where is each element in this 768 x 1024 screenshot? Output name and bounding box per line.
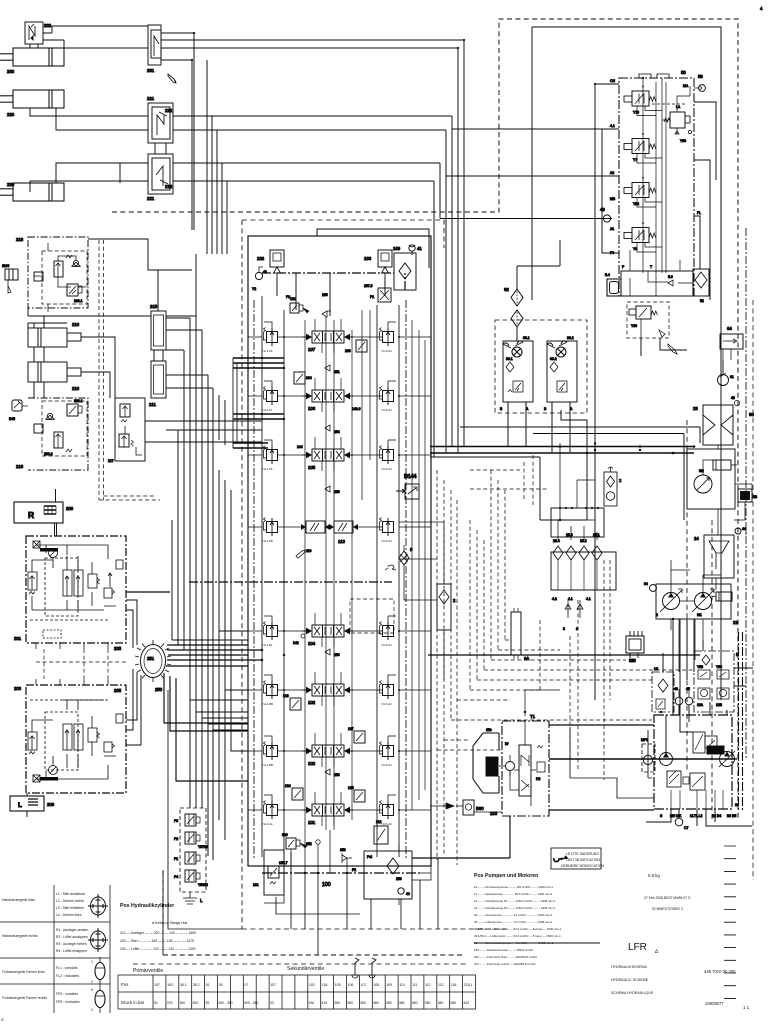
svg-text:380: 380 (360, 1001, 366, 1005)
svg-text:15.1: 15.1 (593, 533, 600, 537)
wire console R down (55, 489, 57, 536)
pump 2 (656, 589, 682, 617)
svg-text:43: 43 (731, 396, 735, 400)
svg-text:YH-1-BB: YH-1-BB (262, 763, 273, 767)
sensor B80 (456, 800, 502, 815)
svg-text:101: 101 (308, 820, 316, 825)
filter 62 lower (511, 310, 523, 327)
solenoid Y59 (716, 665, 729, 679)
relief valve right r631 (380, 622, 394, 641)
spool valve 102 (248, 672, 431, 706)
pilot sq 218 upper (67, 284, 82, 296)
svg-text:113: 113 (438, 983, 444, 987)
box 218.1 upper dashed (42, 251, 87, 304)
svg-text:380: 380 (425, 1001, 431, 1005)
wire 231 outputs right (161, 33, 464, 60)
svg-text:218: 218 (16, 464, 24, 469)
svg-text:150: 150 (334, 653, 340, 657)
svg-text:CH: CH (610, 79, 615, 83)
mid-block extra components (233, 340, 419, 844)
gauge port 48 (255, 267, 266, 280)
tank box (551, 480, 604, 537)
valve 215 (150, 304, 166, 350)
svg-text:B2 B4: B2 B4 (712, 814, 721, 818)
svg-text:4.2: 4.2 (552, 597, 557, 601)
svg-text:49: 49 (600, 207, 605, 212)
svg-text:B80: B80 (476, 806, 484, 811)
relief right 527 (380, 518, 394, 537)
svg-text:153: 153 (334, 773, 340, 777)
svg-text:MA: MA (683, 84, 689, 88)
svg-text:134: 134 (306, 376, 312, 380)
svg-text:230 — Löffel — — — 120 — — 140: 230 — Löffel — — — 120 — — 140 — — — 143… (120, 947, 196, 951)
svg-text:46: 46 (674, 687, 678, 691)
svg-text:222: 222 (165, 108, 173, 113)
relief valve left r337 (264, 328, 278, 347)
svg-text:5.9: 5.9 (668, 275, 673, 279)
tank return verticals below block (276, 852, 420, 955)
svg-text:12A: 12A (697, 703, 704, 707)
svg-text:Fußsteuergerät Fahren links: Fußsteuergerät Fahren links (2, 970, 45, 974)
svg-text:F2: F2 (352, 868, 356, 872)
svg-text:15.2: 15.2 (580, 539, 587, 543)
spool valve 106 (248, 378, 431, 412)
svg-text:121: 121 (290, 297, 296, 301)
fan motor 3M (687, 449, 737, 509)
wires pumps to travel block (663, 619, 753, 753)
main pump circle R (719, 751, 735, 767)
svg-text:Handsteuergerät links: Handsteuergerät links (2, 898, 35, 902)
unit 157.3 (364, 284, 391, 302)
spool valve 104 (248, 613, 431, 647)
svg-text:FL2 : rückwärts: FL2 : rückwärts (56, 974, 79, 978)
block 201 bottom ticks (36, 643, 108, 649)
svg-text:38.2: 38.2 (193, 983, 200, 987)
left rail heavy stubs (233, 358, 284, 448)
block 200 internals (28, 700, 123, 782)
left bottom risers (163, 690, 242, 955)
svg-text:YH-5-A0: YH-5-A0 (381, 467, 392, 471)
svg-text:183: 183 (364, 256, 372, 261)
svg-text:5.4: 5.4 (605, 273, 610, 277)
wires 218 upper (34, 243, 86, 312)
outer dashed boundary (112, 19, 738, 955)
pilot band upper connections (166, 254, 213, 388)
wire console L (26, 793, 28, 817)
unit 128 (283, 694, 301, 710)
wire filter block top (558, 443, 597, 540)
svg-text:LAST MODIFICATION: LAST MODIFICATION (566, 858, 600, 862)
valve 8 (399, 545, 413, 573)
svg-text:169: 169 (393, 246, 401, 251)
check 153 (325, 769, 340, 777)
svg-text:Pos: Pos (121, 982, 128, 987)
svg-text:R2 : Löffel auskippen: R2 : Löffel auskippen (56, 935, 88, 939)
svg-text:35 — — Lüfterpumpe — — — 74 c: 35 — — Lüfterpumpe — — — 74 cm3/U — — — … (474, 920, 553, 924)
svg-text:154: 154 (334, 430, 340, 434)
svg-text:23: 23 (693, 406, 698, 411)
A-line lower heavy (549, 809, 654, 811)
svg-text:220: 220 (7, 112, 15, 117)
svg-text:L1 : Stiel ausfahren: L1 : Stiel ausfahren (56, 892, 85, 896)
svg-text:ø Kolben ø Stange Hub: ø Kolben ø Stange Hub (152, 921, 188, 925)
svg-text:300 - 350: 300 - 350 (244, 1001, 258, 1005)
legend row1 text (2, 892, 85, 917)
svg-text:218.1: 218.1 (74, 299, 83, 303)
svg-text:1S: 1S (654, 667, 659, 671)
stack valve P2 (174, 832, 208, 849)
svg-text:4.1: 4.1 (610, 124, 615, 128)
svg-text:15b: 15b (486, 728, 492, 732)
last modification box (551, 848, 604, 869)
sub block 161 (253, 850, 288, 895)
pilot solenoid valve Y3 (624, 222, 662, 252)
svg-text:C7: C7 (684, 826, 688, 830)
check 158 (340, 848, 352, 863)
valve 215-211 connector (154, 350, 163, 361)
wires travel to tank (646, 809, 752, 826)
svg-text:Pos Hydraulikzylinder: Pos Hydraulikzylinder (120, 903, 174, 909)
pilot supply unit 190 (412, 690, 654, 858)
svg-text:200 — — Fahrmotor links — — 1: 200 — — Fahrmotor links — — 160/256.8 cm… (474, 955, 537, 959)
rotary heavy bundle (126, 592, 248, 645)
svg-text:2: 2 (91, 980, 93, 984)
loop rect (570, 727, 654, 798)
stack wires (183, 800, 197, 904)
svg-text:163: 163 (167, 983, 173, 987)
label 142 (293, 634, 305, 645)
svg-text:30: 30 (154, 1001, 158, 1005)
stroking piston (707, 746, 724, 754)
svg-text:22 — — Arbeitspumpe P2 — — 125: 22 — — Arbeitspumpe P2 — — 125x2 cm3/U —… (474, 906, 556, 910)
return filter block 4 (551, 533, 616, 601)
dashed pilot box mid (99, 496, 160, 500)
svg-text:DERNIERE MODIFICATION: DERNIERE MODIFICATION (561, 864, 604, 868)
svg-text:112: 112 (425, 983, 431, 987)
svg-text:YH-5-A0: YH-5-A0 (381, 822, 392, 826)
svg-text:209: 209 (66, 506, 74, 511)
wire top CH (595, 84, 619, 560)
svg-text:151: 151 (334, 370, 340, 374)
row wires 527 (248, 526, 431, 528)
wire 218 to cylinders (28, 308, 44, 398)
relief valve right r690 (380, 681, 394, 700)
svg-text:375: 375 (167, 1001, 173, 1005)
oil cooler 23 (693, 396, 740, 445)
lower valve B (690, 773, 705, 790)
svg-text:Druck in bar: Druck in bar (121, 1000, 145, 1005)
reducing valve Y50 (652, 86, 692, 143)
svg-text:380: 380 (373, 1001, 379, 1005)
manifold 50 body (619, 78, 694, 296)
fan motor 36.2 (544, 336, 577, 411)
main gallery dash-dot (262, 273, 405, 290)
right rail dashdot (405, 300, 407, 860)
svg-text:L: L (18, 802, 22, 809)
svg-text:A: A (1, 1017, 4, 1022)
svg-text:HYDRAULIKSCHEMA: HYDRAULIKSCHEMA (611, 965, 648, 969)
svg-text:380: 380 (347, 1001, 353, 1005)
valve 231 (147, 25, 161, 73)
relief valve right r337 (380, 328, 394, 347)
wire cyl220a ports (30, 108, 148, 130)
svg-text:102: 102 (308, 761, 316, 766)
svg-text:B45: B45 (9, 417, 15, 421)
svg-text:L4 : Drehen links: L4 : Drehen links (56, 913, 82, 917)
svg-text:102: 102 (308, 700, 316, 705)
filter 15.4 (553, 539, 563, 560)
relief valve left r751 (264, 742, 278, 761)
svg-text:34: 34 (644, 582, 648, 586)
svg-text:113: 113 (338, 539, 345, 544)
svg-text:Y5708: Y5708 (198, 845, 208, 849)
expansion box 98 (626, 631, 644, 663)
relief valve left r810 (264, 801, 278, 820)
svg-text:108: 108 (374, 983, 380, 987)
svg-text:Pos Pumpen und Motoren: Pos Pumpen und Motoren (474, 873, 538, 879)
svg-text:P1: P1 (174, 857, 178, 861)
svg-text:105: 105 (308, 465, 316, 470)
spool valve 101 (248, 792, 431, 826)
svg-text:2B: 2B (753, 495, 758, 499)
svg-text:3: 3 (563, 627, 565, 631)
svg-text:152: 152 (306, 842, 312, 846)
svg-text:33 — — Servopumpe — — — 14 cm: 33 — — Servopumpe — — — 14 cm3/U — — — 2… (474, 913, 553, 917)
svg-text:156: 156 (334, 490, 340, 494)
svg-text:5: 5 (91, 988, 93, 992)
svg-text:44: 44 (742, 527, 746, 531)
block 201 (14, 536, 126, 651)
relief valve right r810 (380, 801, 394, 820)
valve 211 (149, 361, 166, 407)
dashed subrect 104 (350, 599, 394, 633)
svg-text:161: 161 (253, 883, 259, 887)
block 200 top ticks (36, 679, 108, 685)
servo box B (705, 736, 717, 748)
svg-text:Y5604: Y5604 (198, 883, 208, 887)
svg-text:210: 210 (72, 322, 80, 327)
pedal left (91, 957, 105, 985)
svg-text:Y70: Y70 (633, 111, 639, 115)
pilot solenoid valve Y70 (624, 86, 662, 116)
svg-text:100: 100 (322, 882, 331, 888)
svg-text:T1: T1 (530, 714, 536, 719)
hose rupture line (540, 436, 595, 700)
inner verticals manifold (643, 78, 666, 273)
pilot solenoid valve Y24 (624, 177, 662, 207)
relief tags left rail (262, 349, 392, 826)
row wires r396 (248, 381, 431, 396)
svg-text:2: 2 (91, 1008, 93, 1012)
legend row4 text (2, 992, 80, 1004)
check 5.9 (668, 275, 673, 286)
svg-text:4.1: 4.1 (568, 597, 573, 601)
svg-text:64: 64 (727, 326, 732, 331)
svg-text:SCHWEDT/ODER C: SCHWEDT/ODER C (652, 907, 684, 911)
svg-text:215: 215 (150, 304, 158, 309)
row wires r631 (248, 616, 431, 631)
valve 113 double (248, 518, 431, 571)
svg-text:22: 22 (733, 620, 738, 625)
svg-text:2: 2 (656, 613, 658, 617)
wire 62 (517, 240, 560, 341)
gauge 46 (674, 687, 683, 705)
svg-text:24: 24 (694, 536, 699, 541)
svg-text:YH-1-06: YH-1-06 (262, 467, 273, 471)
left rail dashdot (253, 300, 255, 860)
svg-text:154: 154 (451, 983, 457, 987)
svg-text:Handsteuergerät rechts: Handsteuergerät rechts (2, 934, 38, 938)
svg-text:128: 128 (283, 694, 289, 698)
block right port lines (399, 522, 444, 600)
fold tick marks (724, 846, 736, 998)
wire MA right (694, 102, 716, 300)
wire 221b to bus (30, 163, 440, 192)
wire heavy feed 215 (28, 316, 151, 323)
svg-text:232: 232 (44, 23, 52, 28)
band extension (219, 395, 248, 840)
svg-text:106: 106 (348, 983, 354, 987)
svg-text:155: 155 (322, 293, 328, 297)
svg-text:P3: P3 (174, 819, 178, 823)
svg-text:Y2: Y2 (252, 287, 256, 291)
heavy stub verticals (233, 358, 237, 448)
svg-text:60: 60 (749, 412, 754, 417)
block top inner rect (317, 229, 429, 268)
svg-text:109: 109 (386, 983, 392, 987)
relief valve 218 upper (54, 255, 72, 277)
fan motor 36.1 (500, 336, 533, 411)
pen icon right (668, 344, 677, 354)
svg-text:10825077: 10825077 (705, 1001, 724, 1006)
breather 41 (409, 245, 423, 255)
filter 15.3 (566, 533, 576, 560)
svg-text:157.3: 157.3 (364, 284, 373, 288)
unit 127 (348, 727, 365, 743)
block 217 (108, 398, 145, 463)
block 201 internals (28, 541, 123, 638)
svg-text:YH-1-0B: YH-1-0B (262, 539, 273, 543)
cylinder 210 upper (28, 322, 81, 347)
svg-text:61: 61 (730, 375, 734, 379)
gallery drop lines (277, 273, 385, 316)
wire cyl230 to 231 lines (52, 26, 148, 48)
svg-text:05: 05 (219, 983, 223, 987)
wire pump suction (671, 619, 703, 672)
svg-text:4.1: 4.1 (586, 597, 591, 601)
pedal right (91, 985, 105, 1013)
unit 133 (345, 340, 367, 353)
svg-text:MB: MB (610, 197, 616, 201)
svg-text:LFR: LFR (628, 942, 647, 953)
svg-text:127: 127 (348, 727, 354, 731)
svg-text:R: R (28, 510, 34, 520)
svg-text:106: 106 (308, 406, 316, 411)
pen icon 110 (296, 550, 305, 558)
row wires r690 (248, 675, 431, 690)
svg-text:205: 205 (114, 688, 122, 693)
wires block201 to rotary (126, 600, 137, 648)
outermost dashed bottom (133, 520, 712, 964)
svg-text:218: 218 (16, 237, 24, 242)
dashed pilot boundary verticals (99, 240, 104, 500)
box 218 upper outline (28, 237, 88, 308)
wire 215 top feed (88, 239, 192, 311)
svg-text:102: 102 (309, 983, 315, 987)
row wires r751 (248, 736, 431, 751)
svg-text:220: 220 (7, 182, 15, 187)
collector dashdot pair (739, 632, 743, 812)
right rail lines (377, 305, 399, 857)
svg-text:210: 210 (72, 386, 80, 391)
pen symbol (168, 74, 176, 83)
box 1196 (2, 264, 18, 293)
svg-text:1: 1 (91, 960, 93, 964)
svg-text:M.T1.L2: M.T1.L2 (690, 814, 703, 818)
svg-text:104: 104 (322, 983, 328, 987)
svg-text:41: 41 (417, 246, 422, 251)
svg-text:38.1: 38.1 (180, 983, 187, 987)
svg-text:380: 380 (438, 1001, 444, 1005)
svg-text:YH-5-A0: YH-5-A0 (381, 539, 392, 543)
relief valve left r396 (264, 387, 278, 406)
upper return lines (460, 427, 700, 520)
svg-text:231: 231 (147, 68, 155, 73)
gauge 45 (685, 687, 693, 705)
svg-text:MH MK: MH MK (670, 814, 682, 818)
svg-text:YH-1-BB: YH-1-BB (262, 702, 273, 706)
check 154 (325, 425, 340, 434)
breather unit 2 (604, 467, 622, 506)
svg-text:36.1/36.2 — Lüftermotor — — 64: 36.1/36.2 — Lüftermotor — — 64.3 cm3/U —… (474, 927, 561, 931)
stack valve P1 (174, 852, 200, 864)
rotary union 250 (135, 640, 171, 692)
fan drive unit 5 (694, 651, 739, 712)
svg-text:1 1: 1 1 (743, 1005, 750, 1010)
manifold bottom band (605, 250, 709, 303)
svg-text:410: 410 (322, 1001, 328, 1005)
svg-text:221: 221 (147, 96, 155, 101)
row wires r455 (248, 440, 431, 455)
wire cyl rods right (81, 337, 115, 398)
svg-text:133: 133 (345, 349, 351, 353)
filter unit 169 (393, 246, 416, 290)
svg-text:380: 380 (334, 1001, 340, 1005)
pump 1 (692, 589, 714, 617)
wires rotary to main block heavy (164, 650, 262, 781)
engine coupling 15b (473, 728, 506, 793)
svg-text:380: 380 (412, 1001, 418, 1005)
dashed drain verticals (437, 470, 505, 865)
cylinder 220 upper (0, 90, 64, 108)
wire 231 down lines (192, 33, 194, 230)
svg-text:YH-1-06: YH-1-06 (262, 349, 273, 353)
port sq 218 upper left (34, 272, 43, 281)
sub block 160 (364, 851, 412, 899)
svg-text:LETZTE ÄNDERUNG: LETZTE ÄNDERUNG (566, 852, 599, 856)
damper 2B (738, 489, 758, 502)
servo box A (693, 732, 705, 753)
svg-text:Primärventile: Primärventile (133, 968, 163, 974)
band wires (630, 250, 693, 296)
svg-text:144: 144 (297, 445, 303, 449)
svg-text:Y58: Y58 (697, 665, 703, 669)
corner mark (1, 1017, 4, 1022)
joystick left (88, 894, 108, 918)
filter 15.1 (592, 533, 602, 560)
svg-text:1196: 1196 (2, 264, 9, 268)
svg-text:L3 : Stiel einfahren: L3 : Stiel einfahren (56, 906, 84, 910)
